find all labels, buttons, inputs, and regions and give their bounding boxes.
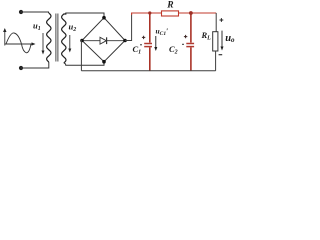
C2 plus bbox=[184, 35, 187, 38]
junction dot C2 top bbox=[189, 11, 193, 15]
C2 minus bbox=[182, 43, 184, 45]
C1 minus bbox=[140, 44, 142, 46]
transformer core bbox=[55, 14, 57, 62]
capacitor C1 vertical bottom bbox=[149, 47, 151, 70]
u2 arrow bbox=[69, 35, 71, 50]
input terminal top bbox=[19, 10, 23, 14]
RL bottom lead bbox=[215, 51, 217, 71]
bridge diode D bbox=[82, 40, 125, 42]
node dot left bbox=[80, 39, 84, 43]
node dot top bbox=[102, 16, 106, 20]
u1 arrow bbox=[42, 33, 44, 52]
uC1 arrow bbox=[155, 36, 157, 49]
bottom rail bbox=[81, 70, 215, 72]
svg-text:R: R bbox=[166, 1, 173, 11]
transformer secondary winding bbox=[62, 13, 66, 63]
wire bbox=[21, 62, 49, 68]
capacitor C1 vertical top bbox=[149, 13, 151, 43]
wire secondary top to bridge bbox=[66, 13, 104, 18]
node dot right bbox=[123, 39, 127, 43]
output minus bbox=[219, 54, 223, 56]
C1 plus bbox=[142, 36, 145, 39]
wire bbox=[21, 12, 49, 13]
wire bridge negative down bbox=[80, 41, 83, 71]
input terminal bottom bbox=[19, 66, 23, 70]
red top wire left segment bbox=[132, 13, 162, 15]
transformer primary winding bbox=[47, 13, 51, 62]
capacitor C2 vertical bottom bbox=[190, 47, 192, 70]
output plus bbox=[220, 18, 224, 22]
red top wire right segment bbox=[179, 12, 217, 14]
resistor R bbox=[162, 11, 179, 16]
node dot bottom bbox=[102, 60, 106, 64]
capacitor C2 plates bbox=[186, 43, 194, 45]
capacitor C1 plates bbox=[144, 43, 152, 45]
capacitor C2 vertical top bbox=[190, 13, 192, 43]
wire top right corner down to RL bbox=[215, 13, 217, 32]
bridge rectifier diamond bbox=[82, 18, 125, 62]
load resistor RL bbox=[213, 32, 218, 51]
junction dot C1 top bbox=[148, 11, 151, 14]
wire bridge positive output bbox=[125, 15, 132, 41]
wire secondary bottom to bridge bbox=[64, 62, 104, 66]
uo arrow bbox=[221, 31, 223, 48]
AC input waveform symbol bbox=[5, 30, 34, 53]
